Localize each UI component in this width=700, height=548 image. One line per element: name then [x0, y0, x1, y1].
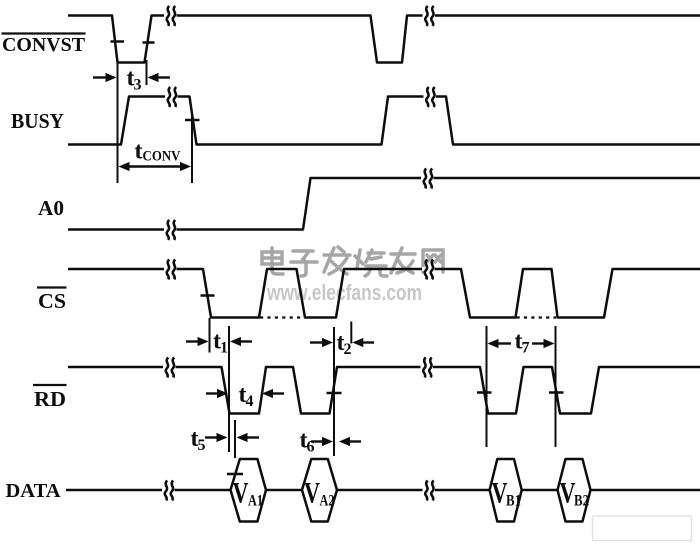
svg-text:6: 6 [307, 439, 315, 456]
svg-text:A0: A0 [38, 196, 64, 220]
svg-text:RD: RD [34, 387, 66, 411]
svg-text:CONV: CONV [143, 149, 181, 165]
svg-text:DATA: DATA [6, 480, 61, 502]
svg-text:CONVST: CONVST [2, 34, 85, 56]
svg-text:A1: A1 [248, 493, 263, 510]
svg-text:B2: B2 [574, 493, 589, 510]
svg-text:1: 1 [220, 340, 228, 357]
svg-text:7: 7 [522, 340, 530, 357]
svg-text:t: t [135, 139, 143, 165]
svg-text:www.elecfans.com: www.elecfans.com [266, 280, 422, 305]
svg-text:B1: B1 [506, 493, 521, 510]
svg-text:5: 5 [198, 437, 206, 454]
svg-text:2: 2 [344, 341, 352, 358]
svg-text:V: V [304, 477, 320, 510]
svg-text:4: 4 [246, 393, 254, 410]
svg-text:3: 3 [134, 77, 142, 94]
svg-text:A2: A2 [320, 493, 335, 510]
svg-text:BUSY: BUSY [11, 109, 64, 133]
svg-text:CS: CS [38, 289, 66, 313]
svg-text:V: V [233, 477, 249, 510]
